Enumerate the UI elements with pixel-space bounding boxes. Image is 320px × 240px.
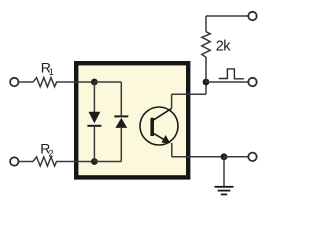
wire emitter down: [171, 143, 173, 157]
node GND junction dot: [221, 153, 228, 160]
wire emitter right (exits box): [172, 156, 224, 158]
diode D1 (LED, pointing down): [93, 82, 95, 112]
node IN1 terminal (left top): [10, 78, 18, 86]
node OUT terminal: [248, 78, 256, 86]
wire OUT node up to 2k: [205, 57, 207, 82]
transistor Q1 (phototransistor): [140, 107, 178, 145]
resistor 2k: [202, 32, 210, 58]
svg-text:2: 2: [48, 148, 53, 159]
node COM terminal: [248, 153, 256, 161]
wire up to output node: [205, 82, 207, 94]
wire terminal to R2: [19, 161, 33, 163]
node B junction dot: [91, 158, 98, 165]
wire top rail to VCC terminal: [206, 15, 248, 17]
svg-text:1: 1: [49, 67, 54, 78]
wire R2 to box: [56, 161, 94, 163]
transistor Q1 base bar: [150, 118, 154, 136]
wire terminal to R1: [19, 81, 33, 83]
resistor R1: [33, 78, 57, 87]
diode D2 (LED, pointing up): [114, 115, 128, 117]
wire collector right (exits box): [172, 93, 206, 95]
transistor Q1 emitter stroke with arrow: [154, 134, 169, 143]
node A junction dot: [91, 79, 98, 86]
wire down to D2 cathode: [120, 82, 122, 116]
transistor Q1 collector stroke: [154, 108, 172, 119]
svg-text:2k: 2k: [216, 38, 231, 54]
pulse waveform symbol: [219, 69, 244, 79]
wire 2k to top rail: [205, 16, 207, 32]
wire collector up: [171, 94, 173, 108]
wire R1 to box: [56, 81, 94, 83]
wire to common terminal: [224, 156, 248, 158]
optocoupler body U1: [76, 63, 188, 177]
node OUT junction dot: [203, 79, 210, 86]
wire OUT to terminal: [206, 81, 248, 83]
node IN2 terminal (left bottom): [10, 157, 18, 165]
wire anode bus top: [94, 81, 121, 83]
node VCC terminal: [248, 12, 256, 20]
wire cathode bus bottom: [94, 161, 121, 163]
ground: [223, 157, 225, 187]
resistor R2: [33, 157, 57, 166]
